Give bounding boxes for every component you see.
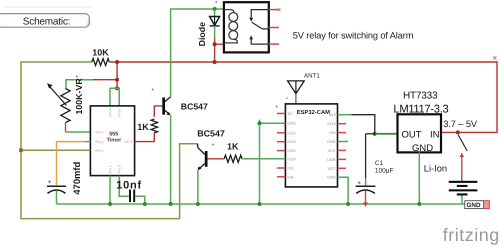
wire end x mark: [493, 56, 496, 59]
antenna ANT1: [286, 73, 321, 104]
svg-text:*: *: [76, 75, 79, 82]
wire: red to potentiometer top: [93, 79, 117, 81]
svg-text:VCC: VCC: [328, 149, 336, 153]
wire: green GND pin down to rail: [418, 152, 420, 204]
pin labels top/bottom rotated: [108, 108, 121, 173]
svg-text:GND: GND: [327, 140, 336, 144]
left pin stubs: [277, 114, 286, 177]
svg-text:UOT: UOT: [328, 167, 337, 171]
svg-text:GND: GND: [467, 202, 481, 209]
capacitor C3 10nf: [116, 179, 145, 204]
potentiometer VR1 100K-VR: [47, 75, 84, 132]
svg-text:100K-VR: 100K-VR: [74, 78, 84, 115]
transistor Q2 BC547: [197, 129, 225, 171]
wire: orange 555 pin2 to 470mfd: [57, 142, 85, 186]
svg-text:*: *: [212, 143, 215, 150]
svg-text:Li-Ion: Li-Ion: [424, 163, 447, 173]
svg-text:LM1117-3.3: LM1117-3.3: [393, 103, 448, 115]
x marks at stub ends: [278, 8, 281, 11]
svg-text:IO13: IO13: [287, 140, 295, 144]
wire: red Q2 base to 1K: [208, 158, 225, 160]
wire: green ESP32 right GND to rail: [338, 177, 349, 204]
pin stubs right: [269, 10, 279, 45]
svg-text:IO0: IO0: [329, 131, 335, 135]
svg-text:Pin 4: Pin 4: [108, 108, 112, 116]
wire: green 555 pin8/pin4 feeds: [110, 88, 119, 106]
svg-text:OUT: OUT: [402, 129, 422, 140]
svg-text:Pin 6: Pin 6: [96, 131, 104, 135]
IC U1 555 timer: [85, 106, 135, 176]
red bottom stub: [65, 123, 67, 133]
svg-text:100µF: 100µF: [375, 167, 394, 174]
svg-text:fritzing: fritzing: [443, 225, 500, 245]
svg-text:IO15: IO15: [287, 149, 295, 153]
svg-text:*: *: [215, 0, 218, 7]
switch S1: [458, 135, 467, 181]
svg-text:IO12: IO12: [287, 131, 295, 135]
pin labels left: [96, 131, 133, 153]
resistor R1 10K: [84, 48, 109, 66]
green bottom lead: [56, 191, 58, 204]
svg-text:1K: 1K: [227, 141, 239, 151]
junction dots red: [115, 60, 119, 64]
module U2 ESP32-CAM: [275, 104, 348, 187]
svg-text:3V3: 3V3: [329, 113, 336, 117]
svg-text:ESP32-CAM: ESP32-CAM: [297, 109, 330, 116]
wire: green 1K to ESP32 IO14: [242, 158, 286, 160]
svg-text:BC547: BC547: [181, 101, 208, 111]
wiper arrow: [50, 87, 67, 106]
svg-text:UOR: UOR: [327, 158, 336, 162]
svg-text:470mfd: 470mfd: [71, 162, 82, 195]
junction dots red: [213, 42, 217, 46]
junction dot on IN wire at switch: [456, 130, 460, 134]
svg-text:Pin 8: Pin 8: [118, 108, 122, 116]
svg-text:Pin 1: Pin 1: [108, 165, 112, 173]
coil: [224, 10, 238, 43]
svg-text:10nf: 10nf: [116, 179, 142, 191]
svg-text:+: +: [48, 179, 52, 186]
svg-text:Timer: Timer: [107, 138, 122, 144]
left pin labels: [287, 112, 296, 179]
resistor R3 1K: [224, 141, 242, 162]
svg-text:ANT1: ANT1: [304, 73, 320, 80]
svg-text:IO4: IO4: [287, 175, 293, 179]
right pin labels: [327, 113, 336, 180]
regulator U3 HT7333 / LM1117-3.3: [393, 90, 448, 204]
svg-text:GND: GND: [412, 143, 433, 154]
svg-text:IO2: IO2: [287, 167, 293, 171]
diode D1: [197, 0, 220, 62]
junction: olive square at (21,150.3): [19, 148, 23, 152]
svg-text:Pin 5: Pin 5: [118, 165, 122, 173]
wire: red 1K to Q1 base: [154, 106, 162, 117]
wire: 555 pin1 bottom to rail: [109, 176, 111, 204]
wire: olive V- net (10K left / 555 pin / bottom rail / Q2 collector): [21, 62, 198, 219]
svg-text:BC547: BC547: [197, 129, 225, 139]
svg-text:IO16: IO16: [327, 122, 335, 126]
svg-text:Pin 3: Pin 3: [124, 140, 132, 144]
svg-text:Pin 1: Pin 1: [96, 149, 104, 153]
svg-text:GND: GND: [327, 176, 336, 180]
wire: red V+ rail to right edge and down to regulator IN: [109, 62, 497, 132]
capacitor C2 470mfd electrolytic: [47, 162, 82, 204]
green pin stubs left rows 2,3: [85, 142, 91, 151]
svg-text:*: *: [151, 88, 154, 95]
right pin stubs: [338, 124, 347, 169]
svg-text:C1: C1: [375, 160, 384, 167]
svg-text:Pin 2: Pin 2: [96, 140, 104, 144]
resistor R2 1K (Q1 base): [137, 119, 157, 133]
green connected stub right pin4 GND: [338, 141, 349, 143]
svg-text:*: *: [275, 105, 278, 112]
wire: 3V3 to regulator OUT (black): [338, 115, 398, 136]
svg-text:5V relay for switching of Alar: 5V relay for switching of Alarm: [293, 30, 414, 40]
svg-text:+: +: [357, 180, 361, 187]
wire: red branch down at x=117 to 555 supply pins: [116, 62, 118, 88]
wire: green pot bottom to 555 pin: [66, 131, 91, 133]
relay K1: [224, 2, 281, 52]
wire: green Q1 emitter down to rail: [170, 115, 172, 204]
wire: green pot top lead: [66, 80, 93, 89]
Schematic: button: [0, 14, 90, 28]
svg-text:10K: 10K: [92, 48, 109, 58]
junction dot: [169, 202, 173, 206]
transistor Q1 BC547: [151, 88, 208, 115]
svg-text:Schematic:: Schematic:: [23, 16, 70, 27]
wire: green ESP32 GND left to rail: [260, 122, 286, 124]
wire: green GND rail: [57, 203, 465, 205]
svg-text:3.7 – 5V: 3.7 – 5V: [443, 119, 478, 129]
svg-text:IO14: IO14: [287, 158, 295, 162]
capacitor C1 100uF: [356, 134, 394, 207]
wire: green Q1 collector up to relay coil: [171, 9, 224, 97]
svg-text:HT7333: HT7333: [403, 90, 438, 101]
svg-text:GND: GND: [287, 122, 296, 126]
ghost toolbar line top-left: [5, 7, 91, 8]
svg-text:IN: IN: [430, 129, 440, 140]
junction dot: [143, 202, 147, 206]
junction dot: [108, 202, 112, 206]
svg-text:Diode: Diode: [197, 22, 207, 47]
svg-text:16: 16: [287, 112, 291, 116]
net label GND: [465, 201, 490, 209]
battery BT1 Li-Ion: [424, 163, 478, 204]
svg-text:1K: 1K: [137, 122, 149, 132]
wire: red diode bottom to relay coil pin: [215, 43, 224, 45]
contacts: [251, 10, 269, 45]
wire: green Q2 emitter to rail: [197, 170, 199, 204]
wire: red 555 pin3 to 1K: [136, 133, 155, 142]
wire: 555 pin5 bottom to 10nf: [119, 176, 129, 197]
wire: olive branch to 555 pin: [21, 149, 85, 151]
junction dot green at diode top: [213, 7, 217, 11]
